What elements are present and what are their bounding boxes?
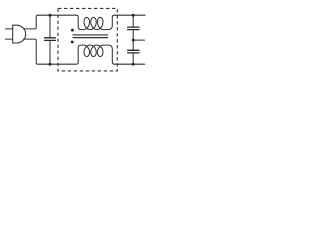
wire C3 to neutral rail <box>132 53 134 64</box>
node dot neutral/C3 <box>132 63 135 66</box>
polarity dot top winding <box>71 29 74 32</box>
dashed shield box <box>58 8 117 71</box>
ground rail stub <box>133 39 144 41</box>
node dot C1 top <box>49 14 52 17</box>
capacitor C3 plates <box>128 50 139 53</box>
polarity dot bottom winding <box>71 40 74 43</box>
capacitor C1 plates <box>45 38 56 41</box>
wire top: plug stub, line rail, choke winding L1, rail to right terminal <box>24 15 146 29</box>
wire bottom: plug stub, neutral rail, choke winding L2, rail to right terminal <box>24 39 145 64</box>
plug P1 prong lower <box>5 38 12 40</box>
capacitor C2 plates <box>128 27 139 30</box>
core lines of choke T1 <box>73 35 108 38</box>
right vertical lead: line to C2 <box>132 15 134 27</box>
plug P1 body <box>13 25 26 43</box>
node dot ground <box>132 39 135 42</box>
node dot line/C2 <box>132 14 135 17</box>
node dot C1 bottom <box>49 63 52 66</box>
capacitor C1 lead top <box>49 15 51 37</box>
plug P1 prong upper <box>5 28 12 30</box>
wire C2 to ground node <box>132 30 134 50</box>
capacitor C1 lead bottom <box>49 41 51 64</box>
